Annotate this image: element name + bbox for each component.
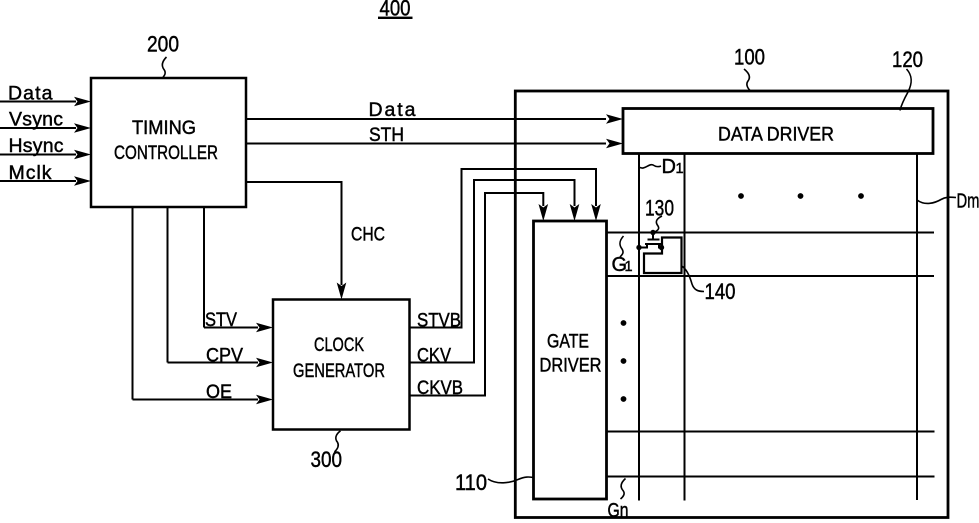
svg-text:Data: Data xyxy=(369,99,416,121)
svg-text:STH: STH xyxy=(369,124,404,146)
svg-text:TIMING: TIMING xyxy=(132,118,196,139)
arrow into data driver (STH) xyxy=(606,139,623,149)
transistor TFT 130: channel bar xyxy=(645,243,661,245)
svg-text:CLOCK: CLOCK xyxy=(314,335,364,356)
svg-text:1: 1 xyxy=(676,161,684,177)
leader squiggle for 300 xyxy=(335,431,341,452)
data line D2 xyxy=(684,154,686,501)
arrow into gate driver (CKV) xyxy=(570,204,580,221)
svg-text:STVB: STVB xyxy=(417,310,461,332)
leader squiggle for 130 xyxy=(655,216,663,232)
block U120 DATA DRIVER xyxy=(623,109,933,154)
arrow into timing controller (Hsync) xyxy=(74,150,91,160)
wire Data to data driver xyxy=(246,118,606,120)
svg-text:Data: Data xyxy=(8,83,53,105)
wire STH to data driver xyxy=(246,143,606,145)
transistor TFT 130: junction dot on gate line G1 xyxy=(650,230,655,235)
label G1 xyxy=(612,254,633,276)
label GATE DRIVER xyxy=(540,332,602,377)
svg-text:120: 120 xyxy=(892,47,923,72)
arrow into clock generator (OE) xyxy=(256,395,273,405)
pixel electrode 140 xyxy=(644,238,682,274)
label CLOCK GENERATOR xyxy=(293,335,385,382)
svg-text:GENERATOR: GENERATOR xyxy=(293,361,385,382)
leader squiggle for G1 xyxy=(620,236,624,257)
transistor TFT 130: gate bar xyxy=(648,239,660,241)
leader squiggle for 110 xyxy=(488,477,534,483)
wire CKV from clock generator to gate driver xyxy=(410,180,575,363)
leader squiggle for 100 xyxy=(744,69,751,91)
wire input Hsync xyxy=(0,154,76,156)
leader squiggle for Gn xyxy=(621,479,626,500)
data line D1 xyxy=(638,154,640,501)
gate line G2 xyxy=(607,275,935,277)
wire input Vsync xyxy=(0,127,76,129)
wire CHC from timing controller to clock generator xyxy=(246,182,342,285)
svg-text:DATA DRIVER: DATA DRIVER xyxy=(718,125,834,146)
arrow into gate driver (STVB) xyxy=(591,204,601,221)
arrow into timing controller (Mclk) xyxy=(74,176,91,186)
ellipsis dots horizontal row xyxy=(738,193,864,199)
arrow into clock generator (CHC) xyxy=(337,283,347,300)
svg-text:Mclk: Mclk xyxy=(9,162,52,184)
block U110 GATE DRIVER xyxy=(534,221,607,499)
svg-text:110: 110 xyxy=(455,470,487,495)
transistor TFT 130: drain connection xyxy=(659,244,662,248)
svg-text:Dm: Dm xyxy=(957,191,979,213)
wire CKVB from clock generator to gate driver xyxy=(410,193,544,396)
arrow into gate driver (CKVB) xyxy=(539,204,549,221)
block U200 TIMING CONTROLLER xyxy=(91,78,246,207)
svg-text:1: 1 xyxy=(625,259,633,275)
svg-text:Hsync: Hsync xyxy=(9,135,64,157)
svg-text:CKVB: CKVB xyxy=(417,377,463,399)
svg-text:100: 100 xyxy=(734,45,765,70)
svg-text:DRIVER: DRIVER xyxy=(540,356,602,377)
svg-text:Gn: Gn xyxy=(608,500,629,522)
arrow into timing controller (Data) xyxy=(74,97,91,107)
svg-text:STV: STV xyxy=(205,309,237,331)
transistor TFT 130: source connection from D1 xyxy=(639,244,647,248)
svg-text:300: 300 xyxy=(311,447,343,472)
leader squiggle for 200 xyxy=(162,57,166,78)
junction dot at drain / pixel xyxy=(659,245,664,250)
arrow into clock generator (STV) xyxy=(256,323,273,333)
svg-text:CKV: CKV xyxy=(417,345,451,367)
svg-text:GATE: GATE xyxy=(547,332,589,353)
wire CPV xyxy=(168,207,259,363)
svg-text:CHC: CHC xyxy=(351,224,385,246)
leader squiggle for Dm xyxy=(917,197,956,203)
transistor TFT 130: gate stub xyxy=(652,233,654,240)
wire OE xyxy=(133,207,259,400)
leader squiggle for 120 xyxy=(900,69,911,111)
junction dot on D1 (source) xyxy=(636,245,641,250)
svg-text:200: 200 xyxy=(147,32,179,57)
ellipsis dots vertical column xyxy=(621,320,627,402)
wire input Mclk xyxy=(0,180,76,182)
svg-text:CONTROLLER: CONTROLLER xyxy=(114,143,218,164)
svg-text:140: 140 xyxy=(705,279,736,304)
arrow into clock generator (CPV) xyxy=(256,358,273,368)
label TIMING CONTROLLER xyxy=(114,118,218,164)
arrow into timing controller (Vsync) xyxy=(74,123,91,133)
wire STV xyxy=(204,207,258,328)
block 100 LCD panel xyxy=(515,91,948,518)
block U300 CLOCK GENERATOR xyxy=(273,300,410,430)
label 400 (figure number) xyxy=(378,0,413,20)
data line Dm xyxy=(916,154,918,501)
leader squiggle for D1 xyxy=(639,165,661,168)
wire STVB from clock generator to gate driver xyxy=(410,169,597,328)
svg-text:Vsync: Vsync xyxy=(9,109,63,131)
gate line Gn xyxy=(607,476,935,478)
arrow into data driver (Data) xyxy=(606,114,623,124)
svg-text:CPV: CPV xyxy=(206,345,243,367)
leader squiggle for 140 xyxy=(682,266,705,292)
svg-text:OE: OE xyxy=(206,381,232,403)
svg-text:D: D xyxy=(662,156,676,178)
gate line G1 xyxy=(607,232,935,234)
wire input Data xyxy=(0,101,76,103)
label D1 xyxy=(662,156,684,178)
gate line Gn-1 xyxy=(607,431,935,433)
